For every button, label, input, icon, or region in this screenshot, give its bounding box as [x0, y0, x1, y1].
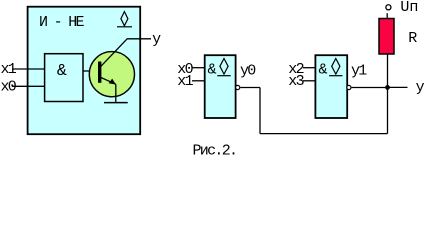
svg-text:И - НЕ: И - НЕ — [39, 14, 85, 31]
svg-text:Рис.2.: Рис.2. — [193, 142, 237, 157]
wire y0 down — [259, 88, 261, 134]
wire emitter down — [115, 84, 117, 102]
emitter common bar — [104, 102, 128, 104]
open-collector diamond of DD2.1 — [217, 59, 230, 76]
wire x1 input — [12, 68, 45, 70]
wire resistor to node and down to rail — [387, 54, 389, 134]
wire node to output y — [388, 86, 408, 88]
svg-text:у0: у0 — [240, 62, 256, 79]
wire x1 to DD2.1 — [192, 80, 205, 82]
open-collector diamond of DD2.2 — [329, 59, 342, 76]
gate DD2.2 box — [315, 55, 347, 118]
svg-text:у: у — [152, 31, 161, 48]
wire collector to output y — [127, 38, 151, 40]
wire x3 to DD2.2 — [303, 80, 315, 82]
wire y0 output right — [240, 87, 260, 89]
svg-text:x1: x1 — [177, 73, 193, 90]
AND gate box U1 — [45, 54, 83, 102]
svg-text:у1: у1 — [351, 62, 367, 79]
inversion bubble DD2.2 output — [347, 85, 351, 89]
inversion bubble DD2.1 output — [236, 85, 240, 89]
wire x0 to DD2.1 — [192, 67, 205, 69]
wire terminal to resistor — [386, 13, 388, 18]
wire x2 to DD2.2 — [303, 67, 315, 69]
transistor VT1 base bar — [98, 62, 101, 83]
transistor VT1 emitter with arrow — [100, 77, 116, 84]
resistor R body — [379, 19, 394, 55]
transistor VT1 collector — [100, 39, 127, 67]
gate DD2.1 box — [205, 55, 236, 118]
node junction dot — [385, 85, 390, 90]
wire y1 output to node — [352, 87, 388, 89]
block DD1 (NAND element И-НЕ) — [28, 7, 141, 135]
transistor VT1 body — [89, 52, 134, 97]
svg-text:x3: x3 — [288, 73, 304, 90]
wire bottom rail — [260, 133, 388, 135]
svg-text:Uп: Uп — [400, 0, 418, 16]
terminal circle Uп — [386, 5, 391, 10]
svg-text:у: у — [416, 79, 425, 96]
wire gate output to transistor base — [83, 70, 99, 72]
svg-text:R: R — [408, 30, 417, 47]
wire x0 input — [12, 85, 45, 87]
open-collector diamond symbol (top of DD1) — [117, 12, 132, 27]
